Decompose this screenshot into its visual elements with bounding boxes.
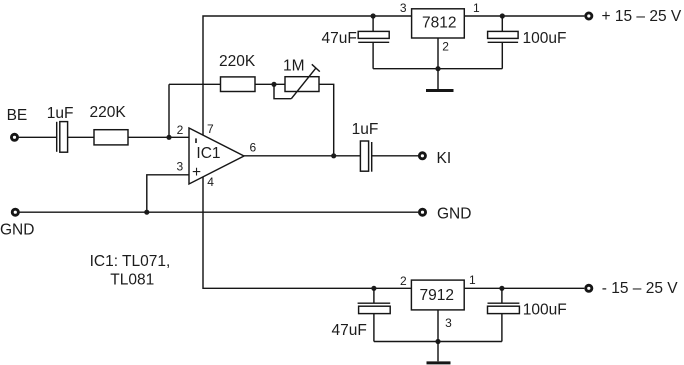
wire stub rail to C3 [372,16,374,31]
svg-text:3: 3 [400,1,407,15]
svg-text:+ 15 – 25 V: + 15 – 25 V [602,8,682,25]
svg-text:2: 2 [177,123,184,137]
regulator U3 7912 body [411,280,464,310]
svg-text:GND: GND [0,222,34,239]
svg-text:7: 7 [207,122,214,136]
potentiometer P1 1M body [285,77,319,92]
wire wiper tie to junction [274,84,291,98]
wire stub C6 down [501,314,503,342]
node junction rail to 47uF top [371,13,376,18]
wire pin 2 of 7812 to bus [437,38,439,69]
svg-text:2: 2 [400,274,407,288]
node junction ground bus [435,66,440,71]
capacitor C3 47uF plate box [358,31,389,38]
capacitor C5 47uF plate line [358,302,391,304]
wire pin 3 input [147,175,189,212]
capacitor C4 100uF plate box [488,31,518,38]
wire stub C5 down [373,314,375,342]
wire feedback left segment [169,83,221,85]
svg-text:100uF: 100uF [523,30,567,47]
wire R2 to pot [255,83,285,85]
wire output pin 6 [244,155,360,157]
svg-text:BE: BE [7,107,28,124]
wire stub C3 down [372,42,374,68]
op-amp IC1 triangle [189,128,244,184]
ground symbol bottom supply [437,342,439,362]
svg-text:4: 4 [207,175,214,189]
svg-text:2: 2 [442,39,449,53]
terminal -V [586,285,592,291]
resistor R2 220K feedback [221,77,256,92]
svg-text:GND: GND [437,206,471,223]
capacitor C3 47uF plate line [358,41,389,43]
wire stub neg rail to C6 [501,288,503,303]
svg-text:IC1: IC1 [196,145,220,162]
terminal +V [586,13,592,19]
capacitor C6 100uF plate box [488,306,520,313]
wire pin 7 to positive rail [203,16,584,135]
svg-text:1: 1 [473,1,480,15]
wire pin 3 of 7912 to bus [437,310,439,342]
svg-text:220K: 220K [219,53,256,70]
svg-text:TL081: TL081 [110,272,154,289]
capacitor C2 1uF output plate line [371,142,373,172]
svg-text:47uF: 47uF [322,30,357,47]
svg-text:6: 6 [250,141,257,155]
svg-text:47uF: 47uF [332,322,367,339]
potentiometer P1 wiper arrow [291,68,316,99]
svg-text:1uF: 1uF [47,105,74,122]
svg-text:3: 3 [445,316,452,330]
wire stub neg rail to C5 [373,288,375,303]
wire R1 to op-amp pin 2 [128,136,189,138]
op-amp inverting tick [195,138,197,143]
svg-text:7912: 7912 [420,287,454,304]
wire junction up to feedback [168,84,170,137]
terminal BE [11,134,17,140]
terminal KI [419,153,425,159]
node junction neg rail to 100uF bottom [499,286,504,291]
svg-text:IC1: TL071,: IC1: TL071, [90,253,171,270]
resistor R1 220K [94,130,128,145]
potentiometer P1 wiper tick [312,64,320,71]
capacitor C1 1uF input plate box [60,122,68,153]
terminal GND right [419,209,425,215]
wire pot right to output node [319,84,334,156]
svg-text:3: 3 [177,160,184,174]
svg-text:100uF: 100uF [523,301,567,318]
wire bottom bus of 7912 [374,341,502,343]
terminal GND left [12,209,18,215]
svg-text:+: + [192,164,201,181]
svg-text:1: 1 [469,273,476,287]
wire bottom bus of 7812 [373,68,502,70]
node junction R2/P1 [271,82,276,87]
svg-text:- 15 – 25 V: - 15 – 25 V [602,280,678,297]
wire ground rail [20,211,419,213]
capacitor C1 1uF input plate line [56,122,58,152]
wire stub C4 down [501,42,503,68]
capacitor C4 100uF plate line [488,41,518,43]
wire stub rail to C4 [501,16,503,31]
svg-text:1M: 1M [283,58,305,75]
node junction neg rail to 47uF bottom [371,286,376,291]
svg-text:1uF: 1uF [352,121,379,138]
wire input BE to C1 [18,136,56,138]
svg-text:7812: 7812 [422,15,456,32]
wire pin 4 to negative rail [203,177,584,288]
node junction ground bus bottom [435,339,440,344]
capacitor C2 1uF output plate box [360,141,368,171]
capacitor C5 47uF plate box [359,306,391,313]
regulator U2 7812 body [412,9,465,38]
node junction inverting input [166,135,171,140]
wire C1 to R1 [68,136,94,138]
ground symbol top supply [437,69,439,90]
svg-text:220K: 220K [90,104,127,121]
capacitor C6 100uF plate line [488,302,520,304]
node output junction [331,153,336,158]
node junction rail to 100uF top [500,13,505,18]
svg-text:KI: KI [437,150,452,167]
node junction pin3 to ground [144,210,149,215]
wire C2 to KI terminal [372,155,419,157]
